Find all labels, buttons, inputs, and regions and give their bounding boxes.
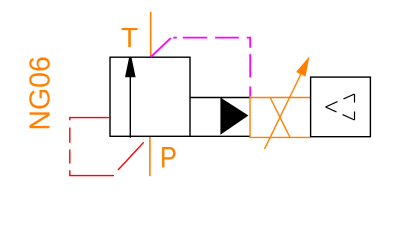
valve body U1 — [110, 57, 190, 136]
throttle X diagonal — [270, 98, 289, 137]
adjustment arrow — [265, 56, 310, 149]
wire channel bottom — [190, 135, 250, 137]
check valve triangle — [220, 98, 248, 135]
wire T port line — [150, 12, 152, 58]
arrow flow path inside valve — [125, 57, 136, 138]
wire P port line — [149, 136, 151, 176]
svg-text:T: T — [121, 22, 138, 53]
svg-text:P: P — [160, 142, 177, 175]
drain line red dashed — [70, 118, 144, 176]
throttle box — [249, 98, 310, 138]
gauge box U2 — [311, 77, 371, 137]
dashed triangle symbol inside gauge box — [326, 94, 355, 120]
svg-text:NG06: NG06 — [25, 56, 57, 130]
wire channel top — [190, 97, 250, 99]
pilot line magenta dashed — [151, 38, 250, 97]
